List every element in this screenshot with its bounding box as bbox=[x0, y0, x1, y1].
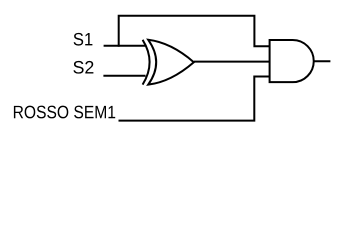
wire XOR output to AND middle input bbox=[194, 61, 270, 63]
wire AND output bbox=[314, 60, 331, 62]
wire S1 branch to AND top input bbox=[119, 16, 270, 47]
label S2 bbox=[73, 61, 93, 74]
wire S2 input bbox=[103, 75, 145, 77]
label ROSSO SEM1 bbox=[14, 106, 115, 119]
label S1 bbox=[74, 33, 93, 46]
wire S1 input bbox=[104, 45, 146, 47]
xor gate U1 body bbox=[148, 40, 194, 85]
wire ROSSO SEM1 to AND bottom input bbox=[119, 77, 270, 121]
and gate U2 bbox=[270, 40, 314, 82]
xor gate U1 input-side arc bbox=[143, 40, 150, 85]
